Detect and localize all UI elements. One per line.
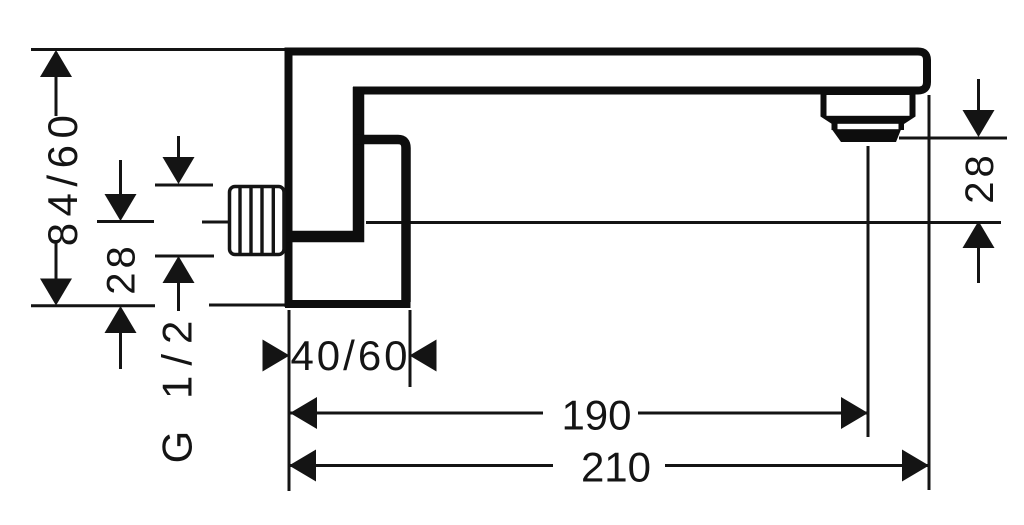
outlet step 1 [821, 92, 916, 124]
main centerline [366, 221, 1001, 224]
label G 1/2 [154, 311, 201, 464]
top extension line [31, 48, 289, 51]
svg-text:190: 190 [561, 392, 631, 439]
svg-text:28: 28 [100, 242, 144, 295]
connector thread line 3 [260, 187, 263, 254]
dimension 40/60 arrow pointing right [263, 340, 290, 372]
dimension 210 arrow right [902, 450, 929, 482]
spout outer profile [289, 52, 928, 308]
dimension 28 left arrow down [105, 160, 137, 221]
dimension 190 arrow right [841, 397, 868, 429]
svg-text:210: 210 [581, 444, 651, 491]
svg-text:84/60: 84/60 [39, 109, 86, 247]
label 190 [561, 392, 631, 439]
bottom extension line left segment [31, 304, 155, 307]
dimension 84/60 arrow up [40, 50, 72, 77]
centerline extension left [97, 220, 154, 223]
dimension 40/60 arrow pointing left [410, 340, 437, 372]
svg-text:28: 28 [958, 151, 1002, 204]
connector thread line 4 [272, 187, 275, 254]
bottom extension line right segment [209, 304, 286, 307]
outlet center vertical extension line [867, 146, 870, 437]
outlet step 3 [832, 130, 901, 143]
threaded connector body [230, 187, 285, 255]
G 1/2 upper extension line [155, 184, 213, 187]
label 40/60 [290, 332, 410, 379]
centerline segment at connector [202, 221, 228, 224]
dimension 210 line [289, 464, 929, 467]
spout outlet extension line horizontal [899, 137, 1007, 140]
dimension 84/60 arrow down [40, 279, 72, 306]
dimension 210 arrow left [289, 450, 316, 482]
dimension 190 line [290, 412, 868, 415]
connector thread line 2 [249, 187, 252, 254]
inner rectangle top and right edge [354, 140, 406, 303]
bottom edge [285, 300, 411, 308]
40/60 right vertical extension line [409, 310, 412, 387]
left vertical extension line [288, 310, 291, 491]
svg-text:40/60: 40/60 [290, 332, 410, 379]
dimension 28 left arrow up [105, 306, 137, 369]
dimension 28 right arrow up [963, 221, 995, 283]
dimension 84/60 vertical line [55, 52, 58, 303]
right vertical extension line [928, 95, 931, 490]
inner vertical bar and horizontal bar [287, 87, 359, 237]
label 84/60 [39, 109, 86, 247]
connector thread line 1 [238, 187, 241, 254]
dimension G 1/2 arrow up [163, 256, 195, 311]
svg-text:G 1/2: G 1/2 [154, 311, 201, 464]
label 210 [581, 444, 651, 491]
dimension 190 arrow left [290, 397, 317, 429]
dimension 28 right arrow down [963, 79, 995, 137]
G 1/2 lower extension line [155, 255, 214, 258]
label 28 left [100, 242, 144, 295]
label 28 right [958, 151, 1002, 204]
outlet step 2 with slot [832, 124, 905, 131]
dimension G 1/2 arrow down [163, 136, 195, 184]
